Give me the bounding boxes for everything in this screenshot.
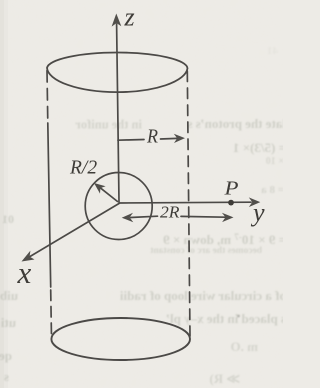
dimension R line right segment bbox=[161, 137, 178, 140]
svg-text:uti: uti bbox=[0, 315, 16, 330]
z-axis arrowhead bbox=[112, 14, 122, 27]
dimension 2R line left segment bbox=[131, 216, 158, 217]
svg-text:= 9 × 10-7 m, down × 9: = 9 × 10-7 m, down × 9 bbox=[163, 232, 283, 247]
R/2 radius arrowhead bbox=[94, 183, 106, 194]
y-axis arrowhead bbox=[249, 197, 260, 207]
R/2 radius arrow line bbox=[99, 187, 118, 202]
svg-text:P: P bbox=[223, 178, 238, 200]
svg-text:≫ R): ≫ R) bbox=[209, 371, 240, 386]
svg-text:× 10: × 10 bbox=[266, 156, 283, 167]
svg-text:y: y bbox=[250, 198, 265, 227]
svg-text:of a circular wire loop of rad: of a circular wire loop of radii bbox=[120, 288, 283, 303]
cylinder bottom ellipse bbox=[51, 318, 190, 360]
svg-text:x: x bbox=[17, 255, 32, 290]
svg-text:01: 01 bbox=[2, 212, 14, 226]
x-axis arrowhead bbox=[22, 251, 35, 262]
cylinder left wall solid middle bbox=[48, 123, 51, 287]
dimension 2R right arrowhead bbox=[222, 213, 234, 222]
svg-text:in the unifor: in the unifor bbox=[75, 118, 142, 132]
svg-text:s: s bbox=[4, 369, 9, 384]
svg-text:2R: 2R bbox=[160, 203, 180, 222]
svg-text:uib: uib bbox=[0, 288, 18, 303]
point P dot bbox=[228, 200, 234, 206]
bleed speck bbox=[237, 315, 240, 318]
svg-text:z: z bbox=[124, 3, 135, 32]
svg-text:m .O: m .O bbox=[224, 339, 258, 354]
y-axis line bbox=[119, 201, 251, 204]
dimension 2R left arrowhead bbox=[122, 213, 134, 222]
svg-text:R: R bbox=[146, 126, 158, 148]
cylinder top ellipse bbox=[47, 53, 188, 93]
cylinder left wall dashed top bbox=[46, 71, 49, 124]
cylinder left wall dashed bottom bbox=[50, 290, 53, 338]
dimension R arrowhead bbox=[174, 134, 185, 143]
z-axis line bbox=[117, 24, 119, 202]
svg-text:41: 41 bbox=[267, 45, 278, 57]
x-axis line bbox=[30, 204, 119, 257]
svg-text:s placed in the x–y pl’: s placed in the x–y pl’ bbox=[166, 311, 283, 326]
dimension R line left segment bbox=[118, 139, 144, 142]
svg-text:qe: qe bbox=[0, 348, 12, 363]
svg-text:becomes the arc of constant: becomes the arc of constant bbox=[149, 246, 262, 256]
left page edge band bbox=[0, 0, 4, 388]
svg-text:R/2: R/2 bbox=[69, 158, 97, 179]
cylinder right wall dashed bbox=[187, 71, 190, 336]
dimension 2R line right segment bbox=[181, 215, 225, 218]
svg-text:late the proton’s s: late the proton’s s bbox=[187, 116, 283, 131]
svg-text:= 8 a: = 8 a bbox=[261, 184, 283, 196]
svg-text:= (5/3)× 1: = (5/3)× 1 bbox=[233, 140, 283, 155]
loop circle radius R/2 bbox=[85, 173, 152, 240]
